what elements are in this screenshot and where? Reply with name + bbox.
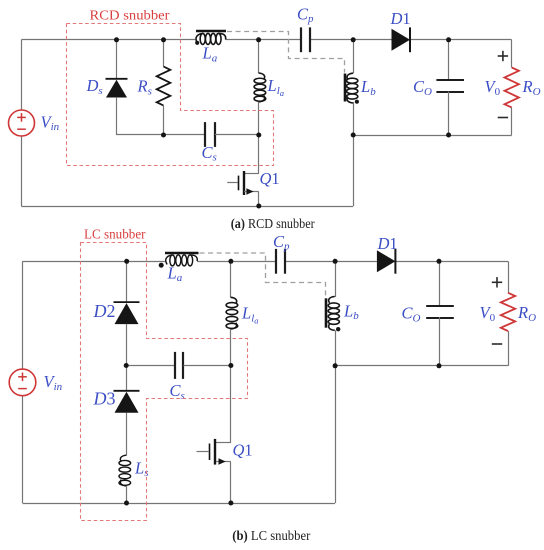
core bar of La (a) [196, 30, 226, 33]
wire Rs branch upper (a) [163, 40, 165, 67]
capacitor Cs (b) [175, 352, 183, 379]
svg-text:Lb: Lb [343, 301, 359, 322]
coupling dashed core line La-Lb (a) [227, 32, 345, 73]
svg-text:CO: CO [413, 77, 432, 98]
svg-text:Cp: Cp [297, 4, 314, 25]
wire Co branch lower (a) [448, 92, 450, 136]
RCD snubber dashed box (a) [67, 24, 274, 166]
svg-text:Q1: Q1 [260, 169, 280, 188]
svg-text:(a) RCD snubber: (a) RCD snubber [231, 216, 315, 231]
node junction Cs left (a) [161, 133, 166, 138]
wire bottom rail (a) [21, 206, 353, 208]
core bar of Lb (a) [344, 74, 347, 102]
svg-text:D1: D1 [377, 234, 398, 253]
node junction Co bottom (a) [446, 133, 451, 138]
wire bottom rail (b) [23, 503, 336, 505]
transistor Q1 (b) [197, 439, 231, 465]
wire right rail upper (b) [508, 261, 510, 293]
plus sign output (a) [498, 51, 508, 61]
wire top rail D1-to-corner segment (b) [395, 261, 508, 263]
svg-text:La: La [202, 44, 218, 65]
svg-text:D3: D3 [93, 388, 116, 408]
wire Lla branch lower (a) [258, 102, 260, 135]
diode D2 (b) [114, 302, 140, 324]
core bar of Lb (b) [325, 298, 328, 327]
svg-text:RO: RO [522, 77, 541, 98]
wire Q1 drain (b) [230, 365, 232, 443]
svg-text:RO: RO [517, 303, 536, 324]
wire Lla branch lower (b) [230, 329, 232, 365]
wire Rs branch lower (a) [163, 106, 165, 135]
node junction Co top (b) [437, 259, 442, 264]
node junction Co bottom (b) [437, 363, 442, 368]
voltage source Vin (b) [9, 369, 36, 396]
wire Co branch lower (b) [439, 317, 441, 366]
diode D3 (b) [114, 391, 140, 413]
wire right rail upper (a) [511, 40, 513, 68]
diode D1 (b) [377, 249, 396, 274]
polarity dot of Lb (b) [336, 327, 340, 331]
wire left rail lower (b) [22, 396, 24, 503]
svg-text:CO: CO [402, 304, 421, 325]
node junction Lla top rail (a) [256, 37, 261, 42]
capacitor Cp (a) [301, 27, 310, 52]
node junction Ds top rail (a) [114, 37, 119, 42]
wire top rail La-to-Cp segment (b) [197, 261, 276, 263]
wire Lb branch lower (b) [335, 330, 337, 366]
wire Co branch upper (a) [448, 40, 450, 81]
plus sign output (b) [492, 277, 502, 287]
wire Lb node down to bottom rail (a) [353, 135, 355, 206]
wire Q1 source to bottom rail (b) [230, 462, 232, 503]
wire Lb branch upper (b) [335, 261, 337, 297]
polarity dot of La (b) [159, 263, 164, 268]
diode D1 (a) [392, 27, 411, 52]
transistor Q1 (a) [227, 171, 259, 195]
node junction Cs left (b) [124, 363, 129, 368]
capacitor Co (b) [426, 306, 454, 318]
inductor Lla coil (b) [226, 297, 238, 329]
svg-text:(b) LC snubber: (b) LC snubber [232, 528, 310, 543]
inductor Lb coil (a) [347, 73, 358, 103]
wire right rail lower (b) [508, 331, 510, 366]
wire top rail left segment (a) [21, 39, 195, 41]
wire Ds branch lower (a) [116, 98, 118, 135]
wire Lb branch upper (a) [353, 40, 355, 73]
svg-text:D1: D1 [390, 9, 411, 28]
diode Ds (a) [106, 79, 128, 98]
wire top rail D1-to-corner segment (a) [410, 39, 512, 41]
wire Lla branch upper (b) [230, 261, 232, 297]
svg-text:Lla: Lla [241, 304, 259, 326]
wire left rail upper (a) [21, 40, 23, 110]
wire snubber bottom left segment (a) [116, 134, 205, 136]
svg-text:Lla: Lla [267, 76, 285, 98]
svg-text:RCD snubber: RCD snubber [90, 8, 171, 23]
wire Lla branch upper (a) [258, 40, 260, 73]
node junction Lb top rail (b) [333, 259, 338, 264]
node junction Lb output rail (a) [351, 133, 356, 138]
wire top rail left segment (b) [23, 261, 165, 263]
wire D2 branch lower (b) [126, 324, 128, 365]
polarity dot of Lb (a) [355, 100, 359, 104]
wire Ls to bottom rail (b) [126, 486, 128, 503]
node junction Lla top rail (b) [228, 259, 233, 264]
wire Cs left segment (b) [126, 365, 174, 367]
wire Lb node down to bottom rail (b) [335, 366, 337, 503]
svg-text:Rs: Rs [137, 77, 152, 98]
wire Cs right segment (b) [183, 365, 231, 367]
wire Lb branch lower (a) [353, 102, 355, 135]
svg-text:Q1: Q1 [233, 441, 253, 460]
minus sign output (b) [492, 343, 502, 345]
svg-text:D2: D2 [93, 301, 116, 321]
core bar of La (b) [165, 252, 199, 255]
node junction D2 top rail (b) [124, 259, 129, 264]
wire Co branch upper (b) [439, 261, 441, 307]
inductor La coil (b) [166, 255, 198, 266]
svg-text:V0: V0 [485, 77, 501, 98]
polarity dot of La (a) [195, 41, 199, 45]
inductor Ls coil (b) [119, 455, 131, 486]
node junction Lb top rail (a) [351, 37, 356, 42]
svg-text:Lb: Lb [360, 77, 376, 98]
wire top rail La-to-Cp segment (a) [226, 39, 301, 41]
wire D2 branch upper (b) [126, 261, 128, 302]
wire Q1 source to bottom rail (a) [258, 192, 260, 206]
wire output bottom rail (a) [353, 135, 512, 137]
capacitor Cp (b) [276, 249, 285, 274]
wire Q1 drain (a) [258, 135, 260, 174]
wire Ds branch upper (a) [116, 40, 118, 79]
svg-text:Vin: Vin [41, 112, 60, 133]
svg-text:LC snubber: LC snubber [84, 227, 146, 242]
inductor La coil (a) [196, 33, 226, 44]
wire snubber bottom right segment (a) [215, 134, 259, 136]
node junction Cs right (b) [228, 363, 233, 368]
capacitor Cs (a) [205, 122, 215, 147]
node junction Ls bottom rail (b) [124, 501, 129, 506]
resistor Ro (b) [501, 293, 515, 331]
wire left rail lower (a) [21, 136, 23, 206]
wire left rail upper (b) [22, 261, 24, 369]
wire top rail Cp-to-D1 segment (a) [310, 39, 392, 41]
voltage source Vin (a) [9, 110, 35, 136]
wire D3 branch lower (b) [126, 413, 128, 456]
node junction Lb output rail (b) [333, 363, 338, 368]
inductor Lla coil (a) [254, 73, 266, 102]
svg-text:Ds: Ds [86, 76, 103, 97]
svg-text:La: La [167, 263, 183, 284]
coupling dashed core line La-Lb (b) [200, 253, 326, 298]
capacitor Co (a) [436, 80, 464, 92]
svg-text:Cp: Cp [273, 232, 290, 253]
inductor Lb coil (b) [328, 297, 339, 331]
node junction Q1 bottom rail (a) [256, 204, 261, 209]
wire D3 branch upper (b) [126, 365, 128, 391]
resistor Rs (a) [157, 67, 171, 106]
wire output bottom rail (b) [335, 365, 508, 367]
LC snubber dashed box (b) [81, 243, 248, 521]
node junction Q1 bottom rail (b) [228, 501, 233, 506]
node junction Cs right (a) [256, 133, 261, 138]
node junction Rs top rail (a) [161, 37, 166, 42]
wire top rail Cp-to-D1 segment (b) [285, 261, 377, 263]
node junction Co top (a) [446, 37, 451, 42]
minus sign output (a) [498, 117, 508, 119]
resistor Ro (a) [505, 68, 519, 108]
wire right rail lower (a) [511, 108, 513, 136]
svg-text:V0: V0 [480, 303, 496, 324]
svg-text:Vin: Vin [44, 372, 63, 393]
